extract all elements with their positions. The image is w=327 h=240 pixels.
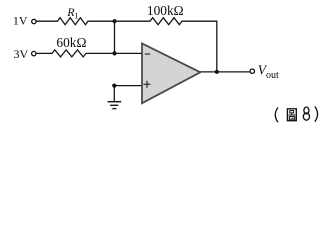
svg-text:Vout: Vout bbox=[258, 62, 279, 81]
svg-text:R1: R1 bbox=[66, 5, 78, 20]
svg-text:60kΩ: 60kΩ bbox=[56, 35, 86, 50]
svg-text:100kΩ: 100kΩ bbox=[147, 3, 184, 18]
svg-text:3V: 3V bbox=[14, 47, 29, 61]
svg-text:1V: 1V bbox=[13, 13, 28, 27]
